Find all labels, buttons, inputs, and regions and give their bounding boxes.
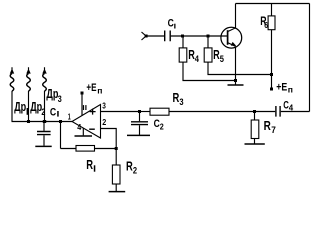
resistor R4 <box>179 48 187 62</box>
svg-text:6: 6 <box>264 20 268 30</box>
svg-text:п: п <box>288 85 293 94</box>
svg-text:5: 5 <box>220 54 225 65</box>
svg-text:+E: +E <box>86 82 96 94</box>
svg-text:Др: Др <box>14 100 26 114</box>
svg-text:R: R <box>264 119 271 133</box>
ground (R2) <box>109 191 126 193</box>
transistor VT1 <box>221 27 242 48</box>
label +En (right) <box>276 82 293 95</box>
svg-text:R: R <box>173 91 180 105</box>
sensor Dr1 <box>10 67 14 121</box>
svg-text:4: 4 <box>195 54 200 65</box>
svg-text:4: 4 <box>77 122 81 132</box>
node bottom <box>115 147 118 150</box>
ground (R7) <box>245 143 265 145</box>
node bus-Dr2 <box>27 120 30 123</box>
svg-text:3: 3 <box>102 101 106 111</box>
resistor R3 <box>150 108 169 115</box>
wire pin2 feedback <box>101 129 117 149</box>
resistor R2 <box>112 165 120 184</box>
sensor Dr2 <box>26 67 30 121</box>
wire C1 to base <box>171 35 227 37</box>
ground (C2) <box>127 134 150 136</box>
wire R6 down to terminal <box>271 30 273 88</box>
resistor R6 <box>268 16 275 30</box>
label +En (left) <box>86 82 102 95</box>
node R6-R5 <box>270 73 273 76</box>
svg-text:2: 2 <box>133 165 137 175</box>
wire R4 to emitter node <box>183 62 236 80</box>
wire R5 to +En node <box>208 62 272 74</box>
node C2 <box>138 110 141 113</box>
wire R7 to ground <box>254 139 256 144</box>
wire input to C1 <box>146 35 164 37</box>
svg-text:C: C <box>50 106 56 118</box>
node base-R5 <box>207 35 210 38</box>
label C2 <box>154 118 165 132</box>
wire op-amp output (pin 3) <box>101 111 140 113</box>
svg-text:п: п <box>97 86 102 95</box>
svg-text:2: 2 <box>102 117 106 127</box>
wire right edge up <box>309 4 311 112</box>
svg-text:3: 3 <box>179 97 183 107</box>
svg-text:2: 2 <box>160 123 164 132</box>
ground (op-amp pin 4) <box>75 135 93 137</box>
svg-text:1: 1 <box>68 112 71 122</box>
pin 11 label <box>83 105 84 110</box>
capacitor C4 (series) <box>255 106 310 117</box>
wire R2 to ground <box>115 184 117 191</box>
wire to R3 <box>140 111 151 113</box>
svg-text:4: 4 <box>289 103 294 112</box>
wire to R2 <box>115 149 117 166</box>
svg-text:C: C <box>168 18 174 30</box>
resistor R5 <box>204 48 212 62</box>
svg-text:3: 3 <box>58 94 62 104</box>
wire to R4 <box>182 36 184 48</box>
resistor R7 <box>251 120 259 139</box>
label R7 <box>264 119 276 136</box>
label Dr1 <box>14 100 28 115</box>
input connector <box>142 32 148 40</box>
label R3 <box>173 91 184 107</box>
label R5 <box>213 48 224 65</box>
ground (emitter) <box>228 84 244 86</box>
svg-text:7: 7 <box>271 125 276 136</box>
power terminal +En (left) <box>81 92 84 116</box>
capacitor C1 (input, series) <box>165 31 171 42</box>
label R4 <box>188 48 199 65</box>
wire pin4 <box>82 128 84 135</box>
node emitter-R4 <box>234 79 237 82</box>
ground (C1) <box>35 145 51 147</box>
resistor R1 <box>76 146 95 152</box>
label R2 <box>126 159 137 175</box>
sensor Dr3 <box>42 67 46 121</box>
wire R1 to node <box>95 148 117 150</box>
label C1 (input) <box>168 18 176 30</box>
node R7 <box>253 110 256 113</box>
wire top rail <box>236 3 310 5</box>
label C4 <box>283 99 294 112</box>
wire to R5 <box>207 36 209 48</box>
wire feedback from bus node down <box>61 122 77 149</box>
label Dr3 <box>46 87 61 104</box>
label Dr2 <box>30 100 45 117</box>
label C1 (left) <box>50 106 59 118</box>
label R1 <box>86 158 95 172</box>
wire emitter down <box>235 46 237 85</box>
wire bus <box>12 121 73 123</box>
node bus-feedback <box>59 120 62 123</box>
wire R6 from rail <box>271 4 273 16</box>
node base-R4 <box>181 35 184 38</box>
op-amp U1 <box>72 105 101 139</box>
node bus-C1 <box>43 120 46 123</box>
svg-text:+E: +E <box>276 82 287 94</box>
capacitor C2 (to ground) <box>131 112 148 135</box>
svg-text:R: R <box>86 158 93 172</box>
label R6 <box>260 16 268 30</box>
wire R3 to R7 node <box>169 111 255 113</box>
capacitor C1 (left, to ground) <box>37 122 51 146</box>
svg-text:R: R <box>188 48 195 62</box>
svg-text:R: R <box>126 159 133 173</box>
wire collector up <box>235 4 237 29</box>
wire to R7 <box>254 112 256 121</box>
power terminal +En (right) <box>270 88 273 91</box>
